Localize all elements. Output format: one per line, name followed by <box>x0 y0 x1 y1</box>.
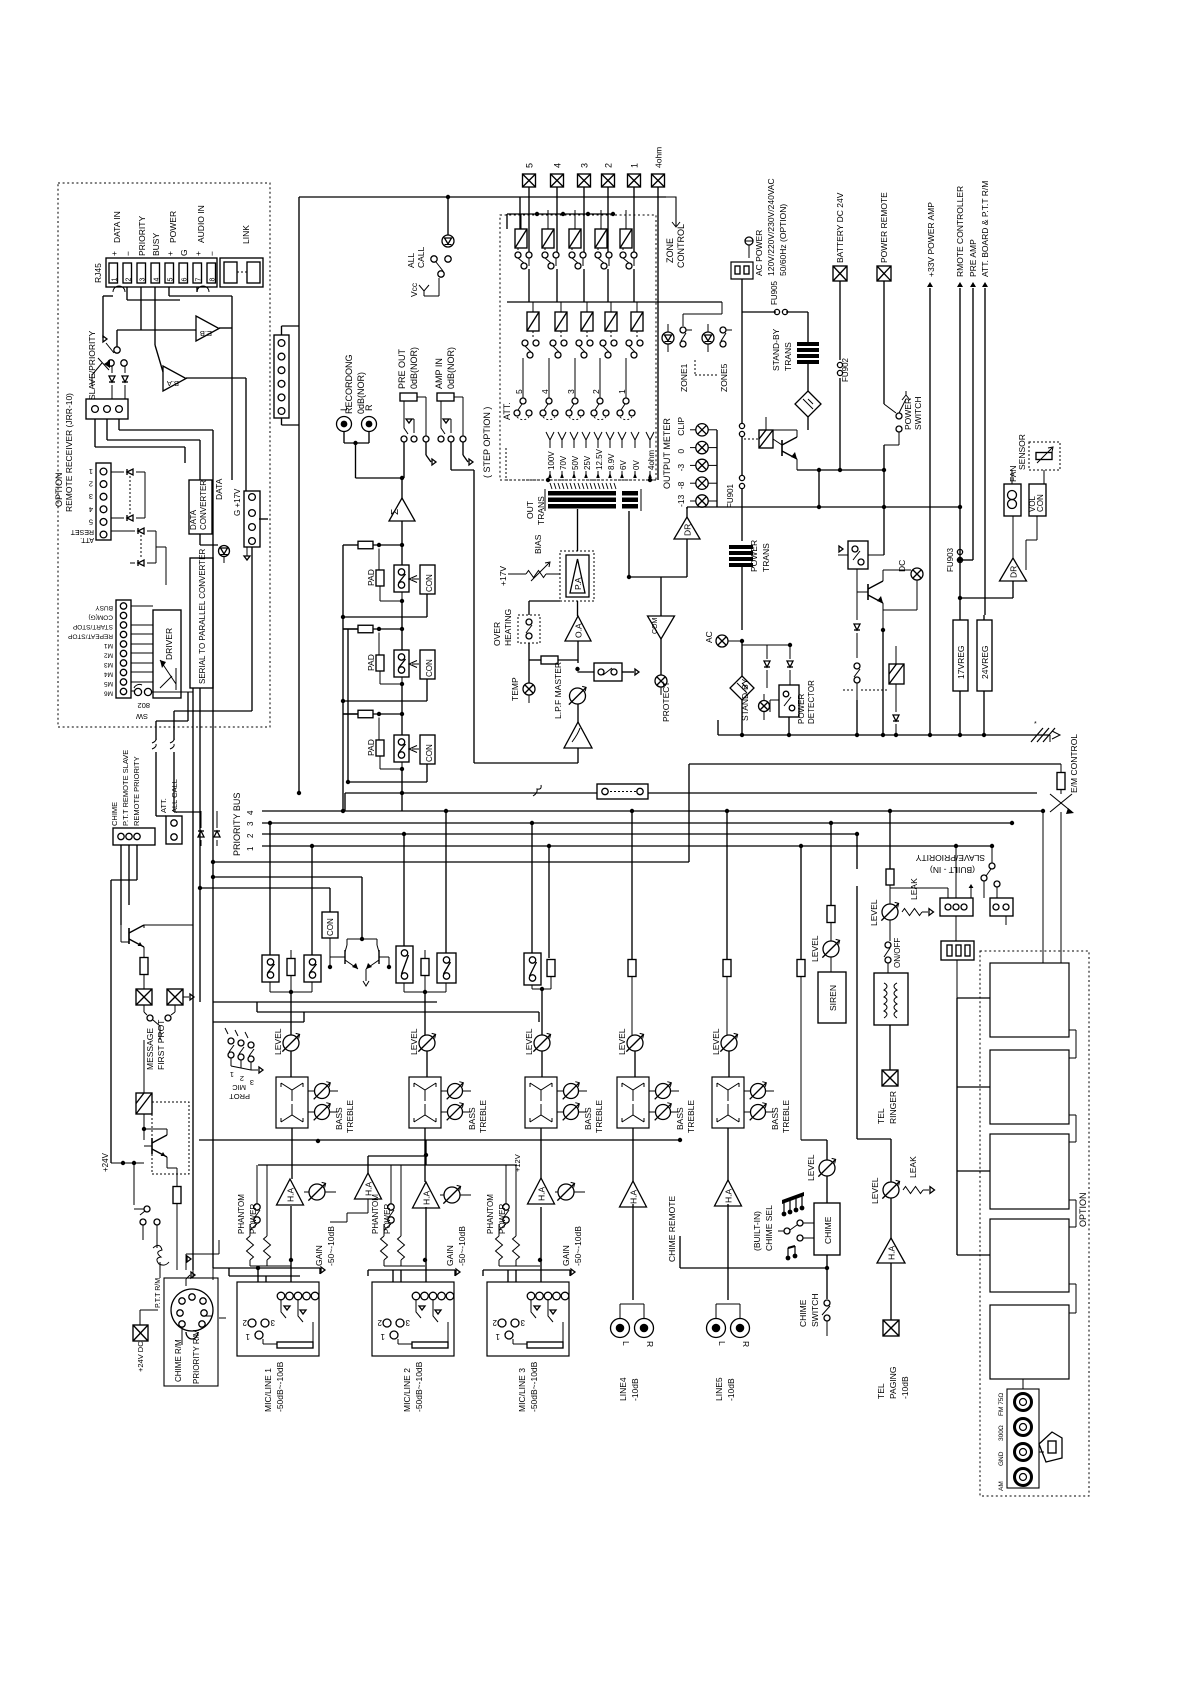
lamp ZONE1 <box>662 302 722 392</box>
svg-text:PRE AMP: PRE AMP <box>968 239 978 277</box>
relay contact box <box>838 470 884 569</box>
connector RJ45 <box>93 258 217 292</box>
svg-text:3: 3 <box>270 1318 275 1327</box>
wire phantom rail <box>199 1138 682 1172</box>
transistor standby <box>766 417 886 507</box>
fuse FU905 <box>742 280 808 314</box>
svg-text:CHIME: CHIME <box>798 1299 808 1327</box>
svg-text:DATA IN: DATA IN <box>112 211 122 243</box>
svg-text:CHIME SEL: CHIME SEL <box>764 1205 774 1251</box>
phantom power ch2 <box>371 1165 394 1234</box>
svg-text:L: L <box>621 1341 631 1346</box>
transformer OUT TRANS <box>525 483 641 525</box>
svg-text:RECORDONG: RECORDONG <box>344 354 354 414</box>
relay k2 <box>861 646 904 700</box>
module slot 1 <box>990 811 1069 1037</box>
svg-text:TEL: TEL <box>876 1108 886 1124</box>
svg-text:TEL: TEL <box>876 1383 886 1399</box>
svg-text:TREBLE: TREBLE <box>478 1100 488 1133</box>
wire din links <box>186 1240 226 1318</box>
resistor feed 1 <box>343 541 404 549</box>
resistor phantom ch1 b <box>264 1165 294 1266</box>
svg-text:0V: 0V <box>632 460 641 470</box>
svg-text:−: − <box>123 251 133 256</box>
power bus att board <box>980 181 990 620</box>
diode pair <box>109 366 128 399</box>
svg-text:GAIN: GAIN <box>445 1245 455 1266</box>
svg-text:FM 75Ω: FM 75Ω <box>998 1393 1005 1416</box>
label bass treble ch3 <box>583 1100 604 1133</box>
svg-text:SERIAL TO PARALLEL CONVERTER: SERIAL TO PARALLEL CONVERTER <box>198 548 207 684</box>
svg-text:+12V: +12V <box>513 1154 522 1172</box>
pot siren level <box>810 935 840 972</box>
svg-text:+33V POWER AMP: +33V POWER AMP <box>926 202 936 277</box>
svg-text:4: 4 <box>89 505 93 514</box>
svg-text:GAIN: GAIN <box>314 1245 324 1266</box>
svg-text:LEVEL: LEVEL <box>870 1177 880 1204</box>
transistor message <box>121 925 193 957</box>
label +24V <box>101 1152 144 1205</box>
source Vcc <box>409 278 439 297</box>
switch S1 <box>394 545 409 603</box>
svg-text:SIREN: SIREN <box>828 985 838 1011</box>
svg-text:1: 1 <box>630 163 640 168</box>
pot BASS ch5 <box>750 1103 774 1121</box>
svg-text:2: 2 <box>604 163 614 168</box>
switch S3 <box>394 714 409 771</box>
op-amp H.A tel <box>877 1198 905 1320</box>
jack box mic/line1 <box>237 1282 319 1412</box>
svg-text:MIC/LINE 3: MIC/LINE 3 <box>517 1368 527 1412</box>
leak resistor ringer <box>902 878 934 916</box>
svg-text:-8: -8 <box>676 481 686 489</box>
svg-text:BUSY: BUSY <box>151 233 161 256</box>
svg-text:AM: AM <box>998 1481 1005 1491</box>
step option enclosure <box>500 215 656 480</box>
svg-text:TEMP: TEMP <box>510 677 520 701</box>
tone block ch1 <box>276 1077 315 1179</box>
svg-text:PAGING: PAGING <box>888 1367 898 1399</box>
pot LPF master <box>553 662 586 719</box>
lamp TEMP <box>510 660 535 703</box>
wire antenna link <box>1039 1451 1044 1453</box>
wire chime conn drops <box>111 845 137 1163</box>
relay-driver CON2 <box>409 650 435 679</box>
enclosure message dotted <box>152 1102 189 1174</box>
switch all call <box>406 246 451 277</box>
op-amp H.A ch4 <box>620 1181 647 1207</box>
resistor PAD1 <box>366 549 402 602</box>
svg-text:BATTERY DC 24V: BATTERY DC 24V <box>835 192 845 263</box>
svg-text:G: G <box>179 249 189 256</box>
antenna jack gnd <box>998 1444 1032 1467</box>
svg-text:LEAK: LEAK <box>909 878 919 900</box>
phantom power ch3 <box>486 1165 509 1234</box>
svg-text:-10dB: -10dB <box>726 1378 736 1401</box>
svg-text:SENSOR: SENSOR <box>1017 434 1027 470</box>
wire com feedback <box>627 511 661 616</box>
power bus remote controller <box>955 186 965 620</box>
power switch <box>884 391 923 470</box>
svg-text:1: 1 <box>230 1070 234 1079</box>
label bass treble ch5 <box>770 1100 791 1133</box>
resistor thermal <box>529 656 578 664</box>
zone control loop <box>520 197 686 268</box>
svg-text:6V: 6V <box>619 460 628 470</box>
svg-text:FU905: FU905 <box>770 280 779 305</box>
resistor siren <box>827 906 835 942</box>
svg-text:POWER: POWER <box>168 211 178 243</box>
lamp all call <box>442 195 454 247</box>
svg-text:2: 2 <box>240 1074 244 1083</box>
svg-text:G +17V: G +17V <box>233 488 242 516</box>
svg-text:L: L <box>339 406 349 411</box>
relay-driver CON1 <box>409 565 435 594</box>
svg-text:100V: 100V <box>547 451 556 470</box>
tone block ch4 <box>617 1077 656 1181</box>
svg-text:DR: DR <box>683 524 693 536</box>
diode d3 <box>854 592 860 658</box>
svg-text:8.9V: 8.9V <box>607 453 616 470</box>
connector slave 3p <box>86 399 128 419</box>
data converter <box>189 480 212 534</box>
label amp in <box>434 347 456 389</box>
tone block ch5 <box>712 1077 751 1181</box>
svg-text:LEVEL: LEVEL <box>869 899 879 926</box>
diode d4 <box>893 700 899 737</box>
transformer POWER TRANS <box>729 540 771 630</box>
pot BASS ch4 <box>655 1103 679 1121</box>
svg-text:ZONE1: ZONE1 <box>679 363 689 392</box>
tel ringer coil <box>874 973 908 1070</box>
connector spare 2p <box>990 898 1013 925</box>
leak resistor paging <box>903 1156 935 1194</box>
op-amp E.B <box>196 316 219 341</box>
fan <box>1004 465 1021 516</box>
svg-text:3: 3 <box>246 821 255 826</box>
svg-text:H.A: H.A <box>887 1246 897 1261</box>
svg-text:START/STOP: START/STOP <box>73 623 113 630</box>
svg-text:50V: 50V <box>571 455 580 470</box>
resistor ch2 <box>421 950 429 992</box>
svg-text:TRANS: TRANS <box>761 543 771 572</box>
switch ptt a <box>134 1206 160 1240</box>
pot GAIN ch1 <box>304 1182 336 1266</box>
att switches <box>514 358 635 420</box>
svg-text:-10dB: -10dB <box>630 1378 640 1401</box>
module slot 4 <box>990 1219 1069 1292</box>
svg-text:PROTECT: PROTECT <box>661 681 671 722</box>
svg-text:E.B: E.B <box>200 329 212 338</box>
svg-text:OPTION: OPTION <box>54 472 64 507</box>
wire module left links <box>957 998 990 1255</box>
op-amp sigma <box>389 476 415 521</box>
label ac power <box>754 178 788 276</box>
svg-text:2: 2 <box>242 1318 247 1327</box>
jack line4 <box>611 1304 656 1401</box>
switch on/off <box>884 920 902 973</box>
op-amp H.A ch5 <box>715 1180 742 1206</box>
label message first prot <box>145 1020 166 1070</box>
resistor ch4 bus <box>628 960 636 1036</box>
svg-text:TREBLE: TREBLE <box>781 1100 791 1133</box>
svg-text:PHANTOM: PHANTOM <box>237 1194 246 1234</box>
indicator lamp <box>219 546 230 564</box>
op-amp H.A ch1 <box>277 1179 304 1205</box>
fuse FU902 <box>833 192 850 472</box>
data label <box>200 478 224 545</box>
transformer stand-by <box>771 312 819 391</box>
pot LEVEL ch5 <box>711 1028 738 1077</box>
lamp ZONE5 <box>695 324 732 392</box>
svg-text:SW: SW <box>135 712 148 721</box>
label bass treble ch4 <box>675 1100 696 1133</box>
svg-text:E/M CONTROL: E/M CONTROL <box>1069 734 1079 793</box>
svg-text:RMOTE CONTROLLER: RMOTE CONTROLLER <box>955 186 965 277</box>
svg-text:-50~-10dB: -50~-10dB <box>573 1226 583 1266</box>
connector DIN ptt <box>164 1272 218 1386</box>
power bus +33V <box>926 202 1050 737</box>
svg-text:H.A: H.A <box>724 1189 734 1204</box>
resistor phantom ch3 a <box>496 1224 541 1266</box>
pot TREBLE ch3 <box>563 1082 587 1100</box>
svg-text:2: 2 <box>89 480 93 489</box>
svg-text:PAD: PAD <box>366 654 376 671</box>
op-amp H.A ch3 <box>528 1178 555 1204</box>
op-amp O.A <box>565 616 591 671</box>
serial to parallel converter <box>190 548 213 688</box>
svg-text:0dB(NOR): 0dB(NOR) <box>446 347 456 389</box>
svg-text:SWITCH: SWITCH <box>810 1293 820 1327</box>
svg-text:50/60Hz (OPTION): 50/60Hz (OPTION) <box>778 204 788 276</box>
switch ch1 a <box>262 955 279 992</box>
jack amp in <box>437 393 466 442</box>
svg-text:70V: 70V <box>559 455 568 470</box>
pot LEVEL ch4 <box>617 1028 644 1077</box>
svg-text:H.A: H.A <box>422 1191 432 1206</box>
svg-text:LEVEL: LEVEL <box>810 935 820 962</box>
wire jack feeds <box>213 1266 575 1282</box>
wire ha feed <box>330 1156 426 1222</box>
svg-text:5: 5 <box>168 278 175 282</box>
wire left risers <box>152 430 213 1270</box>
connector message out1 <box>136 989 152 1015</box>
jack L <box>337 406 352 432</box>
svg-text:COM: COM <box>652 618 659 635</box>
music note single <box>786 1246 798 1260</box>
svg-text:120V/220V/230V/240VAC: 120V/220V/230V/240VAC <box>766 178 776 276</box>
pot LEVEL ch3 <box>524 1028 551 1077</box>
svg-text:CHIME REMOTE: CHIME REMOTE <box>667 1196 677 1262</box>
svg-text:LINE4: LINE4 <box>618 1377 628 1401</box>
svg-text:3: 3 <box>140 278 147 282</box>
svg-text:-10dB: -10dB <box>900 1376 910 1399</box>
switch ch1 b <box>270 955 321 1035</box>
pot LEVEL ch2 <box>409 1028 436 1077</box>
wire pre out <box>404 442 436 478</box>
label bass treble ch2 <box>467 1100 488 1133</box>
svg-text:-13: -13 <box>676 494 686 507</box>
svg-text:LEVEL: LEVEL <box>524 1028 534 1055</box>
lamp standby <box>759 694 770 720</box>
svg-text:DRIVER: DRIVER <box>164 628 174 660</box>
svg-text:1: 1 <box>89 467 93 476</box>
svg-text:PAD: PAD <box>366 569 376 586</box>
svg-text:(BUILT-IN): (BUILT-IN) <box>752 1211 762 1251</box>
pot chime level <box>801 1140 836 1203</box>
label bass treble ch1 <box>334 1100 355 1133</box>
svg-text:-50dB~-10dB: -50dB~-10dB <box>414 1361 424 1412</box>
fuse FU903 <box>946 547 963 600</box>
wire top rail <box>282 197 521 795</box>
module slot 2 <box>990 1050 1069 1124</box>
svg-text:7: 7 <box>196 278 203 282</box>
slave/priority switch <box>87 330 127 400</box>
svg-text:1: 1 <box>246 846 255 851</box>
svg-text:PAD: PAD <box>366 739 376 756</box>
svg-text:2: 2 <box>246 833 255 838</box>
svg-text:LEAK: LEAK <box>908 1156 918 1178</box>
svg-text:25V: 25V <box>583 455 592 470</box>
switch S2 <box>394 629 409 686</box>
svg-text:2: 2 <box>377 1318 382 1327</box>
svg-text:4ohm: 4ohm <box>647 450 656 470</box>
lamp DC <box>883 560 923 610</box>
switch dc dotted <box>843 663 860 700</box>
svg-text:8: 8 <box>210 278 217 282</box>
resistor chime bus <box>797 960 805 1141</box>
svg-text:ATT. BOARD & P.T.T R/M: ATT. BOARD & P.T.T R/M <box>980 181 990 277</box>
svg-text:DATA: DATA <box>214 478 224 500</box>
svg-text:SLAVE/PRIORITY: SLAVE/PRIORITY <box>915 853 985 863</box>
svg-text:3: 3 <box>580 163 590 168</box>
resistor e/m <box>1057 734 1079 793</box>
svg-text:MIC: MIC <box>232 1083 246 1092</box>
switch ch2 a <box>396 946 413 992</box>
svg-text:12.5V: 12.5V <box>595 448 604 470</box>
op-amp COM <box>648 616 675 675</box>
svg-text:OUT: OUT <box>525 501 535 519</box>
connector bars <box>941 916 974 998</box>
antenna jack am <box>998 1469 1032 1492</box>
output meter <box>662 417 717 508</box>
svg-text:BASS: BASS <box>770 1107 780 1130</box>
regulator 17VREG <box>953 620 968 737</box>
step relays <box>522 302 643 358</box>
rectifier standby2 <box>730 676 754 735</box>
svg-text:CONTROL: CONTROL <box>676 224 686 268</box>
svg-text:-50dB~-10dB: -50dB~-10dB <box>529 1361 539 1412</box>
svg-text:LEVEL: LEVEL <box>617 1028 627 1055</box>
svg-text:R: R <box>741 1341 751 1347</box>
ac power plug <box>731 237 753 312</box>
wire long rail y793 <box>345 785 1037 811</box>
svg-text:H.A: H.A <box>537 1187 547 1202</box>
svg-text:+: + <box>165 251 175 256</box>
svg-text:R: R <box>645 1341 655 1347</box>
option enclosure <box>980 951 1089 1496</box>
transistor dc <box>857 569 911 632</box>
svg-text:M3: M3 <box>104 661 113 668</box>
svg-text:3: 3 <box>520 1318 525 1327</box>
svg-text:3: 3 <box>405 1318 410 1327</box>
diode bus1 <box>198 811 204 846</box>
svg-text:M1: M1 <box>104 642 113 649</box>
svg-text:M2: M2 <box>104 652 113 659</box>
wire sigma out <box>401 521 403 565</box>
svg-text:1: 1 <box>380 1332 385 1341</box>
svg-text:PRIORITY BUS: PRIORITY BUS <box>232 793 242 856</box>
phantom power ch1 <box>237 1165 260 1234</box>
overheat switch <box>492 601 560 660</box>
resistor feed 2 <box>343 625 404 633</box>
bias trimmer <box>498 534 560 586</box>
svg-text:TREBLE: TREBLE <box>686 1100 696 1133</box>
svg-text:CONVERTER: CONVERTER <box>199 480 208 530</box>
tone block ch3 <box>525 1077 564 1178</box>
connector G+17V <box>233 488 260 547</box>
resistor PAD3 <box>366 718 402 770</box>
op-amp DR meter <box>661 430 717 577</box>
module slot 3 <box>990 1134 1069 1209</box>
connector power remote <box>877 192 891 404</box>
svg-text:17VREG: 17VREG <box>956 645 966 679</box>
svg-text:FIRST PROT: FIRST PROT <box>156 1020 166 1070</box>
tone block ch2 <box>409 1077 448 1182</box>
svg-text:+24V: +24V <box>101 1152 110 1172</box>
svg-text:CHIME: CHIME <box>823 1216 833 1244</box>
jack line5 <box>707 1304 752 1401</box>
svg-text:P.A: P.A <box>573 577 583 590</box>
bus junctions <box>268 809 1045 848</box>
svg-text:5: 5 <box>89 517 93 526</box>
svg-text:POWER: POWER <box>749 540 759 572</box>
connector tel paging <box>876 1320 910 1399</box>
svg-text:+: + <box>109 251 119 256</box>
svg-text:LEVEL: LEVEL <box>409 1028 419 1055</box>
resistor PAD2 <box>366 633 402 685</box>
wire amp in <box>451 442 474 763</box>
power detector <box>770 680 816 737</box>
chime select switch <box>778 1220 814 1241</box>
pot BASS ch3 <box>563 1103 587 1121</box>
switch ch3 <box>524 953 541 989</box>
resistor phantom ch1 a <box>247 1224 292 1266</box>
pot GAIN ch3 <box>555 1182 585 1266</box>
svg-text:CON: CON <box>425 574 434 592</box>
svg-text:BUSY: BUSY <box>95 604 113 611</box>
svg-text:ZONE: ZONE <box>665 238 675 263</box>
svg-text:DATA: DATA <box>189 509 198 530</box>
chime generator <box>814 1203 840 1255</box>
svg-text:PROT: PROT <box>229 1092 250 1101</box>
svg-text:2: 2 <box>126 278 133 282</box>
wire zone coil rail <box>507 212 615 229</box>
op-amp LPF <box>474 704 592 763</box>
relay standby coil <box>744 430 782 448</box>
svg-text:3: 3 <box>89 492 93 501</box>
svg-text:BASS: BASS <box>675 1107 685 1130</box>
speaker outputs 1-5 <box>523 147 665 187</box>
svg-text:802: 802 <box>137 701 150 710</box>
svg-text:RESET: RESET <box>70 528 94 535</box>
rectifier stand-by <box>795 391 821 430</box>
svg-text:DC: DC <box>897 560 907 572</box>
transistor mute <box>144 1129 177 1168</box>
inductor curl <box>153 1240 169 1278</box>
svg-text:+17V: +17V <box>498 566 508 586</box>
svg-text:GND: GND <box>998 1451 1005 1466</box>
